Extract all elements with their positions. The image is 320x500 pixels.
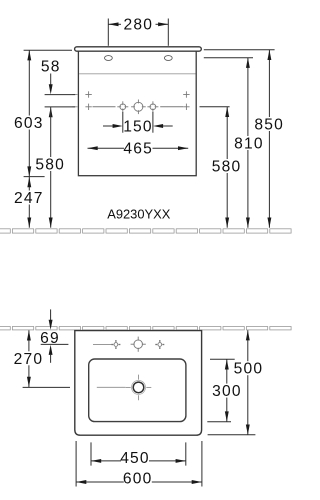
drawer divider line <box>79 73 195 75</box>
svg-text:150: 150 <box>123 118 153 135</box>
dimension 500 <box>247 330 249 435</box>
overflow drain <box>126 375 152 401</box>
svg-text:850: 850 <box>254 117 284 134</box>
svg-text:810: 810 <box>234 136 264 153</box>
washbasin outline (plan view) <box>75 331 202 436</box>
tap hole small right (front) <box>147 101 158 112</box>
svg-text:603: 603 <box>14 115 44 132</box>
dimension 280 <box>108 19 168 46</box>
floor hatch (front view) <box>0 229 291 233</box>
dimension 450 <box>91 442 186 465</box>
svg-text:600: 600 <box>123 471 153 488</box>
svg-text:247: 247 <box>14 190 44 207</box>
wall hatch (plan view) <box>0 327 291 330</box>
svg-text:450: 450 <box>120 450 150 467</box>
tap symbol small left (plan) <box>111 340 120 349</box>
dimension 580 left <box>50 107 52 228</box>
svg-text:300: 300 <box>212 383 242 400</box>
dimension 580 right <box>200 106 230 108</box>
dimension 810 <box>204 57 253 59</box>
tap centerline segment right (front) <box>160 106 183 108</box>
svg-text:A9230YXX: A9230YXX <box>107 206 170 221</box>
dimension 247 <box>24 176 45 178</box>
fixing slot left <box>105 56 113 61</box>
dimension 69 <box>50 309 52 320</box>
upper fixing cross right <box>183 91 189 97</box>
tap hole center (front) <box>131 100 146 115</box>
lower fixing cross left <box>85 104 91 110</box>
svg-text:580: 580 <box>35 157 65 174</box>
svg-text:58: 58 <box>41 59 61 76</box>
drain centerline (plan) <box>97 386 126 388</box>
dimension 465 <box>88 147 189 149</box>
tap centerline stub (plan) <box>93 344 113 346</box>
tap centerline segment left (front) <box>93 106 116 108</box>
dimension 300 <box>210 358 235 360</box>
lower fixing cross right <box>183 104 189 110</box>
dimension 600 <box>76 441 202 487</box>
dimension 150 <box>103 112 173 133</box>
dimension 850 <box>204 49 275 51</box>
dimension 270 <box>28 330 30 387</box>
basin bowl (plan view) <box>89 359 186 422</box>
svg-text:580: 580 <box>212 159 242 176</box>
upper fixing cross left <box>85 91 91 97</box>
tap symbol center (plan) <box>131 337 146 352</box>
vanity cabinet (front view) <box>78 51 196 176</box>
svg-text:465: 465 <box>123 140 153 157</box>
tap symbol small right (plan) <box>155 340 164 349</box>
svg-text:270: 270 <box>14 351 44 368</box>
dimension 603 <box>24 49 72 51</box>
washbasin slab (front view) <box>75 47 202 51</box>
tap centerline stubs outside cabinet (front) <box>73 95 78 107</box>
fixing slot right <box>164 56 172 61</box>
svg-text:500: 500 <box>234 361 264 378</box>
tap hole small left (front) <box>117 101 128 112</box>
svg-text:69: 69 <box>40 330 60 347</box>
svg-text:280: 280 <box>123 17 153 34</box>
dimension 58 <box>45 74 76 107</box>
